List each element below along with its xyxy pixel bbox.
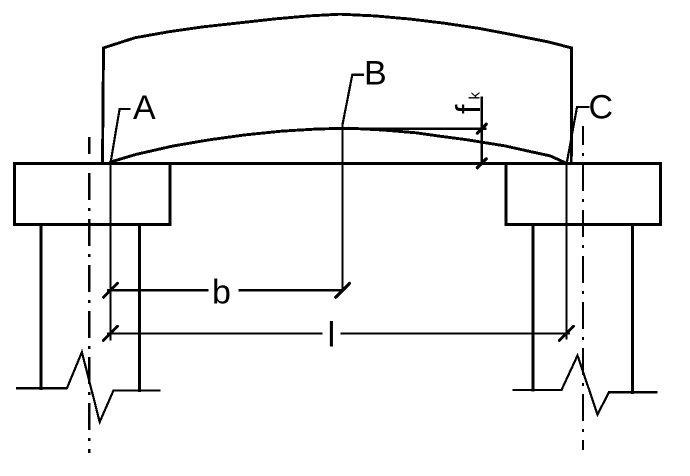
left extension line xyxy=(109,163,111,340)
dimension line l xyxy=(108,332,569,334)
right extension line xyxy=(565,163,567,339)
svg-text:l: l xyxy=(328,315,336,354)
left column right edge xyxy=(138,224,141,390)
oblique tick b right xyxy=(336,283,350,297)
left column break symbol xyxy=(17,352,160,422)
beam outline (left edge, arched top edge, right edge) xyxy=(103,14,572,163)
oblique tick f_k bottom xyxy=(477,159,486,168)
svg-text:A: A xyxy=(133,89,156,127)
left column centerline axis xyxy=(88,137,90,453)
leader line A xyxy=(111,109,130,162)
camber reference line (tangent at apex) xyxy=(320,128,486,130)
beam bottom camber curve xyxy=(111,128,565,162)
svg-text:b: b xyxy=(212,274,231,312)
svg-text:B: B xyxy=(364,54,387,92)
leader line C xyxy=(567,107,588,162)
oblique tick b left xyxy=(103,283,117,297)
left column left edge xyxy=(39,224,42,388)
dimension line f_k (vertical) xyxy=(481,98,483,164)
right column left edge xyxy=(531,225,534,390)
svg-text:C: C xyxy=(589,89,614,127)
leader line B xyxy=(343,75,363,290)
right column centerline axis xyxy=(582,126,584,450)
oblique tick f_k top xyxy=(477,124,486,133)
left bearing block xyxy=(15,163,170,224)
support level line (tops of both bearing blocks) xyxy=(15,162,661,165)
oblique tick l left xyxy=(103,326,117,340)
oblique tick l right xyxy=(559,326,573,340)
right column right edge xyxy=(631,225,634,393)
right bearing block xyxy=(506,163,661,224)
right column break symbol xyxy=(514,356,657,415)
dimension line b xyxy=(108,289,343,291)
